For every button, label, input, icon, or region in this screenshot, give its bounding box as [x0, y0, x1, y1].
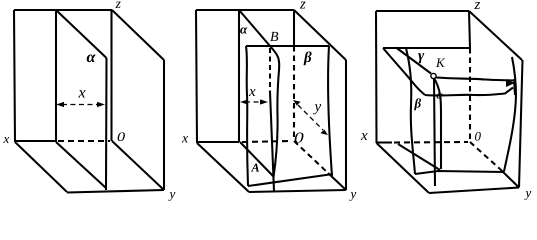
- box3 right edge: [519, 60, 523, 188]
- x-axis dashed part fig2: [242, 141, 292, 142]
- box3 bottom edge: [429, 188, 519, 194]
- label beta fig3: [414, 98, 421, 110]
- y measure arrow fig2: [298, 105, 323, 130]
- box3 top edge: [376, 10, 469, 12]
- x measure arrow fig2: [245, 101, 263, 103]
- box3 top-right diagonal: [469, 11, 522, 60]
- label gamma fig3: [418, 53, 424, 63]
- plane gamma torn left edge fig3: [383, 48, 425, 95]
- intersection line of alpha and beta solid part fig2: [270, 92, 274, 191]
- plane beta torn left edge fig2: [246, 46, 248, 186]
- label y measure fig2: [313, 104, 321, 114]
- label A fig2: [251, 164, 259, 172]
- y-axis solid part fig2: [328, 173, 346, 190]
- arrow blob at right end of gamma-beta line fig3: [506, 80, 515, 88]
- plane alpha bottom edge fig1: [56, 142, 106, 188]
- box2 left edge: [196, 10, 197, 143]
- box3 left edge: [375, 11, 378, 143]
- y-axis dashed part fig2: [294, 141, 328, 173]
- plane alpha bottom edge fig3: [398, 144, 440, 170]
- plane gamma right torn edge fig3: [514, 79, 515, 95]
- box1 top edge: [14, 9, 112, 11]
- label z fig3: [474, 2, 480, 9]
- intersection line of alpha and beta dashed part fig2: [269, 48, 271, 92]
- z-axis solid part fig3: [469, 11, 470, 48]
- box1 right edge: [163, 60, 165, 190]
- label beta fig2: [304, 51, 312, 65]
- intersection line gamma-beta wavy fig3: [436, 78, 513, 81]
- box2 right edge: [345, 60, 347, 190]
- label O fig2: [295, 133, 304, 143]
- box2 bottom-left diagonal: [197, 143, 249, 192]
- label K fig3: [436, 58, 445, 67]
- x-axis solid part fig1: [15, 140, 55, 142]
- y-axis dashed part fig3: [470, 142, 500, 169]
- box1 top-right diagonal: [112, 10, 164, 60]
- plane alpha top edge fig1: [56, 10, 107, 58]
- label x measure fig2: [249, 89, 256, 96]
- x-axis solid part fig3: [377, 141, 392, 143]
- label O fig3: [475, 132, 481, 141]
- box1 left edge: [14, 10, 15, 142]
- label x fig3: [361, 133, 368, 140]
- label y fig3: [524, 191, 531, 200]
- plane alpha front edge fig2: [238, 10, 240, 142]
- z-axis solid part fig2: [293, 10, 295, 46]
- plane gamma back edge wavy fig3: [425, 88, 513, 96]
- x-axis solid part fig2: [197, 141, 239, 143]
- plane alpha front edge fig1: [55, 10, 57, 142]
- x-axis dashed part fig3: [394, 141, 468, 144]
- intersection line alpha-beta fig3: [434, 79, 435, 187]
- box3 bottom-left diagonal: [377, 143, 430, 193]
- label y fig1: [168, 192, 175, 201]
- plane beta right edge fig2: [328, 46, 332, 176]
- box1 bottom edge: [67, 190, 164, 193]
- plane beta right edge fig3: [504, 57, 516, 172]
- plane beta bottom edge fig3: [415, 171, 504, 174]
- point K circle fig3: [431, 73, 436, 78]
- y-axis solid part fig3: [500, 169, 519, 188]
- z-axis dashed part fig3: [469, 48, 471, 141]
- label B fig2: [270, 32, 278, 41]
- label y fig2: [349, 192, 356, 201]
- intersection line gamma-alpha fig3: [396, 48, 431, 74]
- plane beta top edge fig2: [246, 45, 329, 47]
- label O fig1: [118, 132, 125, 141]
- plane beta bottom edge fig2: [248, 174, 333, 186]
- plane gamma front edge fig3: [383, 47, 470, 49]
- label alpha fig1: [87, 54, 96, 62]
- label x fig2: [182, 136, 188, 142]
- plane alpha torn right edge fig2: [270, 46, 279, 177]
- x measure arrow fig1: [62, 104, 99, 106]
- label x fig1: [3, 137, 9, 143]
- label z fig2: [300, 2, 306, 9]
- box1 bottom-left diagonal: [15, 142, 67, 192]
- box2 top edge: [196, 9, 294, 11]
- x-axis dashed part fig1: [58, 140, 110, 142]
- box2 bottom edge: [249, 190, 346, 192]
- label alpha fig3: [437, 93, 443, 98]
- label x measure fig1: [78, 90, 85, 97]
- label alpha fig2: [240, 27, 247, 33]
- label z fig1: [115, 2, 120, 8]
- y-axis fig1: [112, 141, 164, 190]
- box2 top-right diagonal: [294, 10, 346, 60]
- plane alpha bottom edge fig2: [240, 142, 274, 177]
- plane alpha back edge fig1: [105, 58, 108, 190]
- plane alpha top edge fig2: [239, 10, 270, 46]
- z-axis fig1: [110, 10, 112, 141]
- plane alpha torn right edge fig3: [434, 78, 441, 169]
- plane beta torn left edge fig3: [406, 48, 415, 174]
- z-axis dashed part fig2: [293, 46, 295, 140]
